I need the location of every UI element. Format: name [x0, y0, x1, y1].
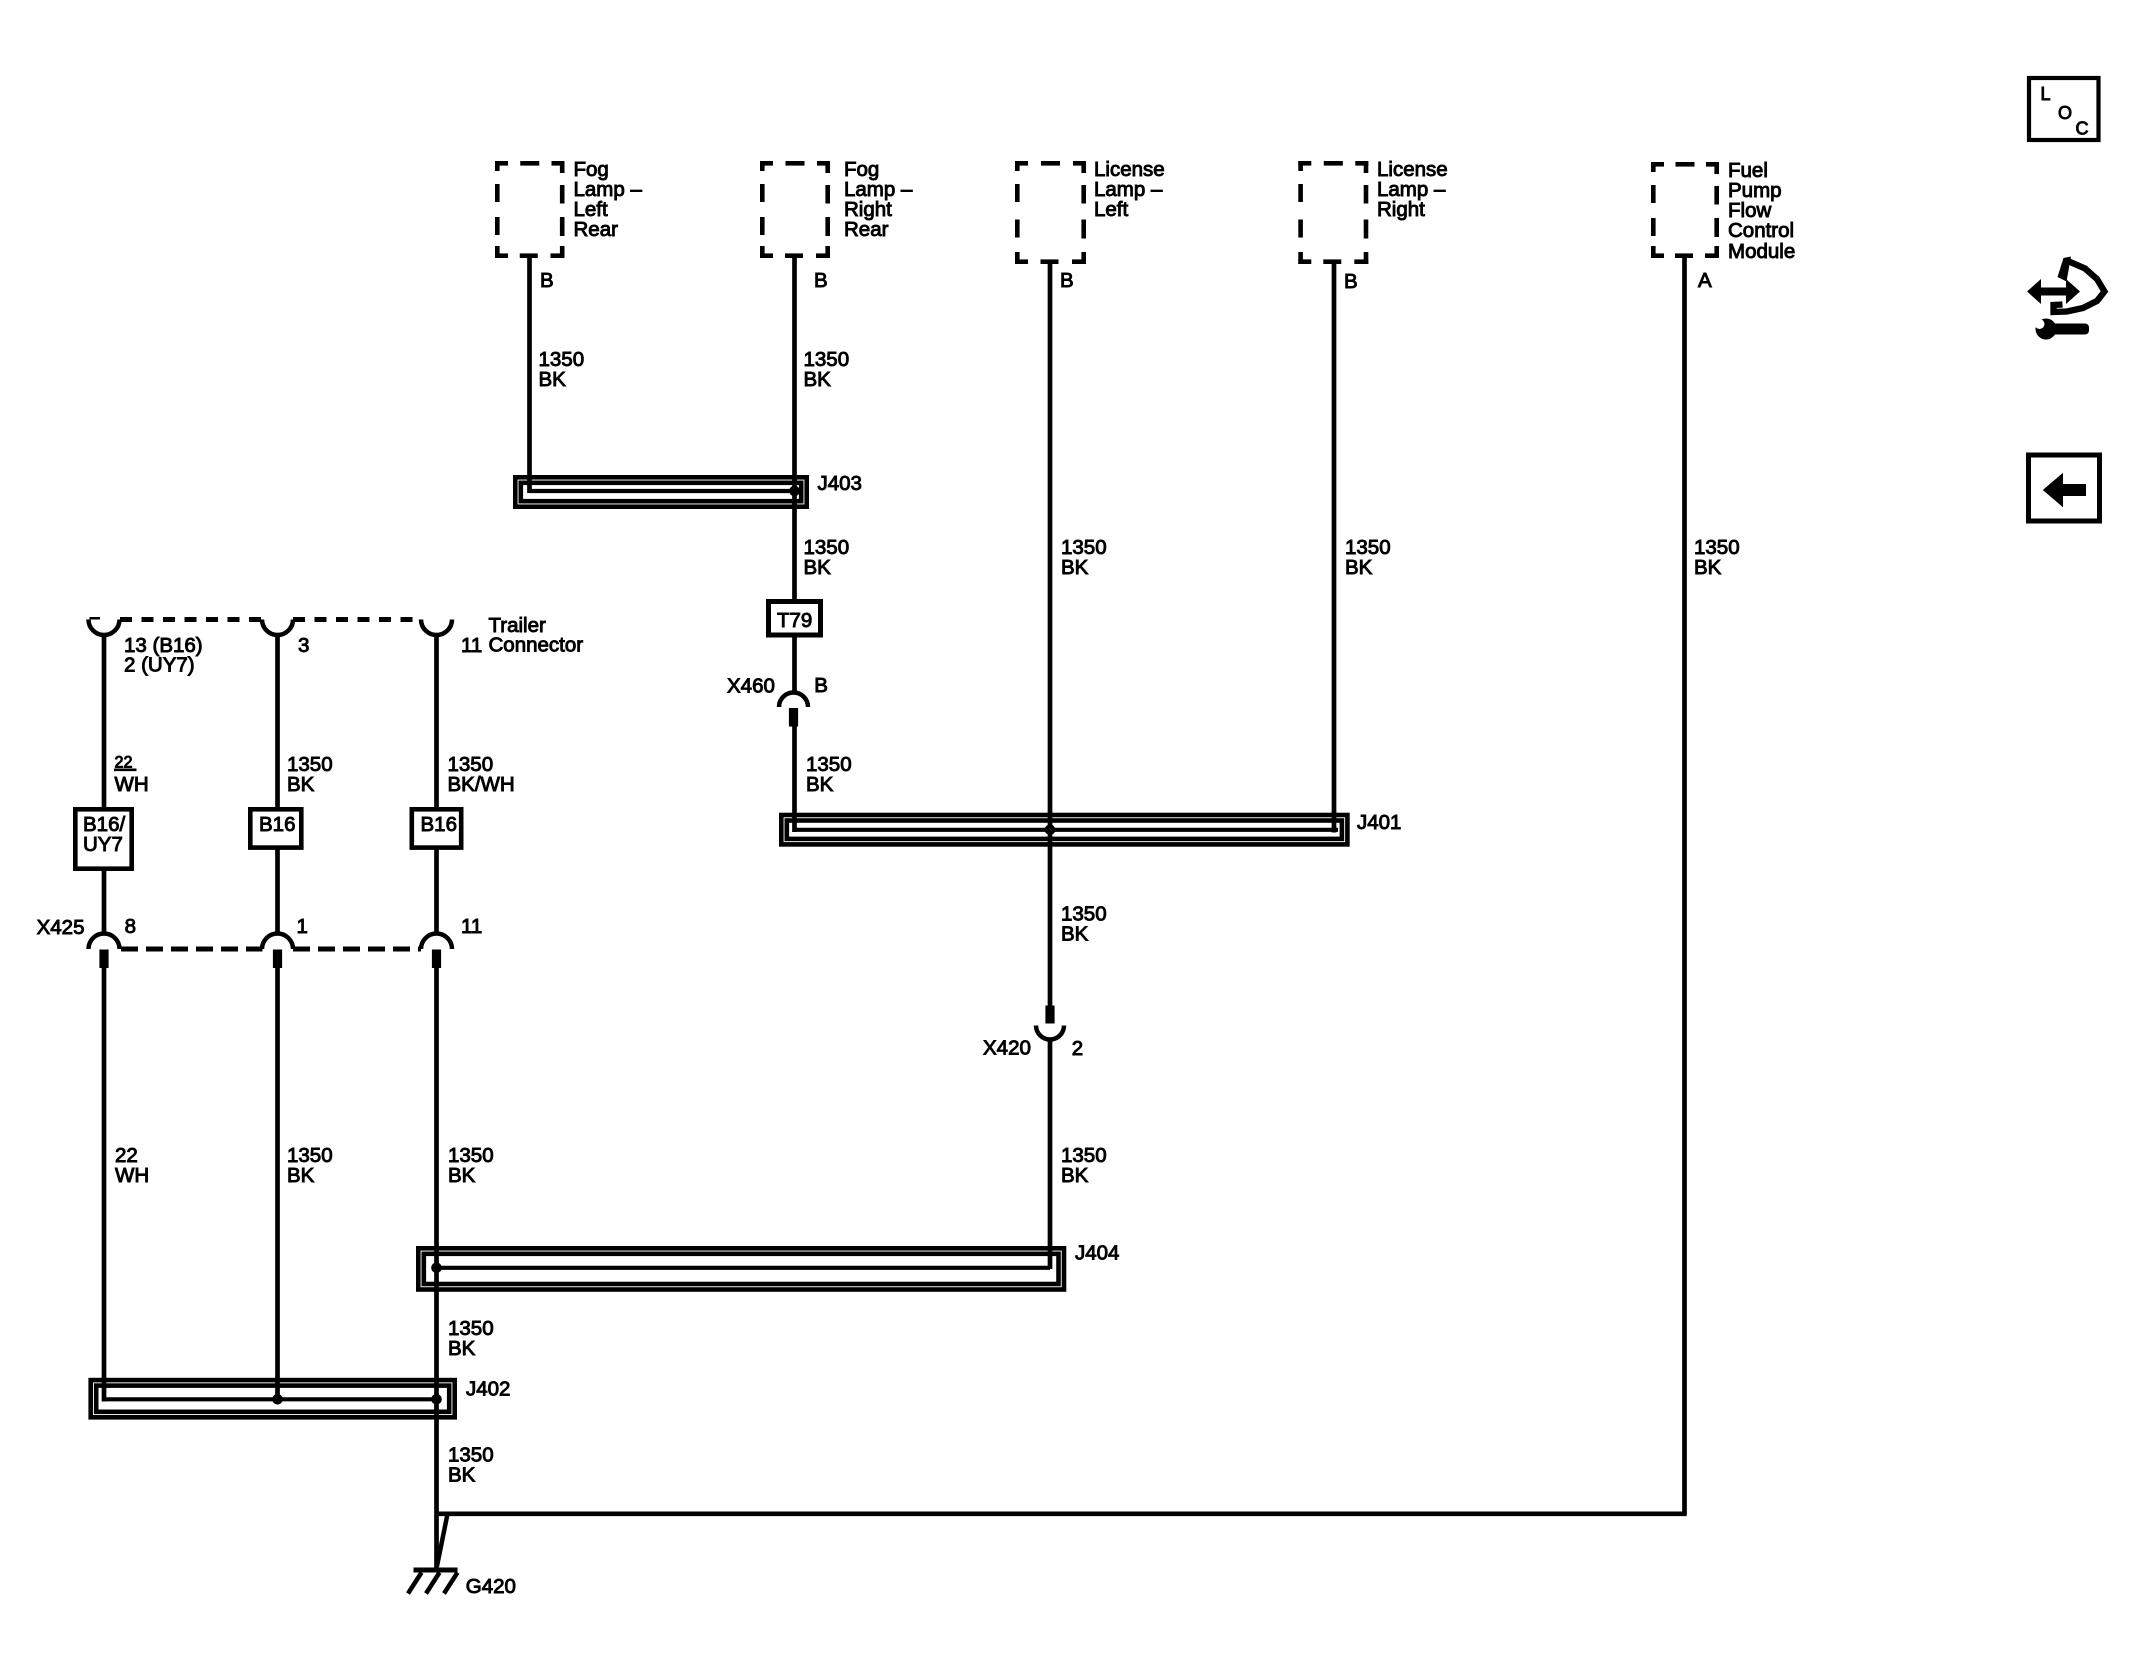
splice bus J401	[795, 828, 1339, 832]
splice pack J404 (body)	[418, 1248, 1064, 1289]
junction on J404	[431, 1263, 442, 1274]
connector box: Fog Lamp - Right Rear	[760, 161, 830, 258]
connector box: Fog Lamp - Left Rear	[495, 161, 565, 258]
svg-text:J401: J401	[1357, 811, 1401, 834]
svg-text:WH: WH	[115, 773, 149, 796]
svg-text:B16: B16	[259, 813, 295, 836]
pin label 2 (X420)	[1072, 1037, 1083, 1060]
wire label 1350 BK (below X460)	[806, 753, 852, 796]
wire label 1350 BK (below J401)	[1061, 902, 1107, 945]
svg-text:Connector: Connector	[489, 634, 584, 657]
svg-text:Module: Module	[1728, 240, 1795, 263]
wire: trailer pin 13 to X425 pin 8	[102, 635, 107, 935]
svg-text:BK: BK	[1694, 556, 1722, 579]
label X420	[983, 1037, 1031, 1060]
wire: T79 to X460	[792, 637, 797, 693]
connector box: License Lamp - Right	[1298, 161, 1368, 264]
wire label 1350 BK (license right)	[1345, 536, 1391, 579]
wire label 1350 BK (between J404 and J402)	[448, 1317, 494, 1360]
label: License Lamp - Right	[1377, 158, 1448, 221]
label: Fog Lamp - Left Rear	[574, 158, 643, 241]
label G420	[466, 1575, 516, 1598]
svg-text:11: 11	[461, 634, 482, 657]
pin label 3	[298, 634, 309, 657]
svg-text:BK: BK	[448, 1463, 476, 1486]
connector X425 cup pin 8	[89, 933, 120, 968]
svg-text:B: B	[814, 674, 828, 697]
wire: ground drop diagonal	[437, 1514, 448, 1566]
svg-text:B: B	[814, 269, 828, 292]
wire: trailer pin 11 to X425 pin 11	[434, 635, 439, 935]
svg-text:2 (UY7): 2 (UY7)	[124, 654, 195, 677]
wire: bottom horizontal run to ground	[439, 1511, 1687, 1516]
svg-text:Rear: Rear	[574, 218, 619, 241]
wire: fog lamp right rear through J403 to T79	[792, 254, 797, 599]
trailer connector cup pin 13/2	[89, 620, 120, 635]
icon: back arrow box	[2029, 455, 2100, 521]
svg-text:T79: T79	[777, 609, 812, 632]
label J402	[466, 1378, 510, 1401]
svg-text:J404: J404	[1075, 1242, 1119, 1265]
wire label 1350 BK (license left)	[1061, 536, 1107, 579]
svg-text:BK/WH: BK/WH	[448, 773, 515, 796]
svg-text:UY7: UY7	[83, 833, 123, 856]
wire label 1350 BK (fog right)	[804, 348, 850, 391]
wire label 1350 BK (X425 pin 11 lower)	[448, 1144, 494, 1187]
icon: LOC box	[2029, 78, 2099, 140]
wire label 1350 BK (fuel pump)	[1694, 536, 1740, 579]
pin label 11 (trailer)	[461, 634, 482, 657]
svg-text:BK: BK	[1061, 1164, 1089, 1187]
svg-text:B: B	[540, 269, 554, 292]
icon: service tools	[2027, 257, 2105, 340]
wire: X425 pin 11 through J404 and J402 to G420	[434, 968, 439, 1569]
svg-text:X420: X420	[983, 1037, 1031, 1060]
option box B16 (right)	[412, 809, 461, 847]
pin B (X460)	[814, 674, 828, 697]
wire label 1350 BK (X425 pin 1 lower)	[287, 1144, 333, 1187]
wire: fuel pump module down right side	[1682, 254, 1687, 1514]
svg-text:BK: BK	[804, 556, 832, 579]
pin label 2 (UY7)	[124, 654, 195, 677]
pin B (license lamp right)	[1344, 270, 1358, 293]
pin B (license lamp left)	[1060, 269, 1074, 292]
svg-text:BK: BK	[806, 773, 834, 796]
junction on J403	[789, 486, 800, 497]
wire: trailer pin 3 to X425 pin 1	[275, 635, 280, 935]
svg-text:Rear: Rear	[844, 218, 889, 241]
pin label 13 (B16)	[124, 634, 203, 657]
svg-text:X460: X460	[727, 675, 775, 698]
splice bus J403	[530, 489, 795, 493]
pin label 1	[297, 915, 308, 938]
splice pack J402 (body)	[91, 1380, 455, 1417]
svg-text:J403: J403	[818, 472, 862, 495]
svg-text:Left: Left	[1094, 198, 1128, 221]
svg-text:O: O	[2058, 103, 2072, 123]
connector X425 dashed line	[121, 947, 421, 952]
connector X420	[1036, 1006, 1064, 1040]
option box B16/UY7	[75, 809, 131, 868]
wire label 1350 BK (below J403)	[804, 536, 850, 579]
svg-text:WH: WH	[115, 1164, 149, 1187]
pin B (fog lamp left rear)	[540, 269, 554, 292]
connector box: Fuel Pump Flow Control Module	[1651, 162, 1719, 258]
connector X460	[779, 693, 808, 727]
junction on J401	[1045, 825, 1056, 836]
wire label 22 WH (upper)	[114, 754, 149, 797]
ground G420 symbol	[408, 1570, 458, 1594]
svg-text:C: C	[2076, 119, 2089, 139]
wire: X425 pin 8 to J402	[102, 968, 107, 1402]
wire label 1350 BK (fog left)	[539, 348, 585, 391]
label J404	[1075, 1242, 1119, 1265]
wire label 1350 BK/WH (trailer pin 11)	[448, 753, 515, 796]
connector X425 cup pin 11	[421, 933, 452, 968]
pin label 8	[125, 915, 136, 938]
trailer connector cup pin 11	[421, 620, 452, 635]
wire label 1350 BK (trailer pin 3)	[287, 753, 333, 796]
label J401	[1357, 811, 1401, 834]
svg-text:BK: BK	[1061, 922, 1089, 945]
wire: X425 pin 1 to J402	[275, 968, 280, 1402]
svg-text:Control: Control	[1728, 219, 1794, 242]
svg-text:1: 1	[297, 915, 308, 938]
splice bus J404	[437, 1266, 1051, 1270]
svg-text:J402: J402	[466, 1378, 510, 1401]
svg-text:BK: BK	[1061, 556, 1089, 579]
svg-text:L: L	[2041, 84, 2051, 104]
splice pack J401 (body)	[781, 815, 1347, 844]
option box B16 (center)	[250, 809, 301, 847]
trailer connector cup pin 3	[262, 620, 293, 635]
wire: license lamp right to J401	[1332, 260, 1337, 833]
splice pack J403 (body)	[515, 477, 806, 506]
svg-text:BK: BK	[448, 1337, 476, 1360]
svg-text:Right: Right	[1377, 198, 1425, 221]
svg-text:BK: BK	[448, 1164, 476, 1187]
pin B (fog lamp right rear)	[814, 269, 828, 292]
junction on J402 (right)	[431, 1394, 442, 1405]
wire: fog lamp left rear to J403	[527, 254, 532, 493]
svg-text:BK: BK	[804, 368, 832, 391]
wire label 1350 BK (below J402)	[448, 1444, 494, 1487]
pin label 11 (X425)	[461, 915, 482, 938]
svg-text:BK: BK	[287, 1164, 315, 1187]
svg-text:8: 8	[125, 915, 136, 938]
svg-text:B: B	[1344, 270, 1358, 293]
svg-text:3: 3	[298, 634, 309, 657]
wire label 1350 BK (below X420)	[1061, 1144, 1107, 1187]
label: Fuel Pump Flow Control Module	[1728, 159, 1795, 263]
svg-text:B16: B16	[421, 813, 457, 836]
pin A (fuel pump flow control module)	[1698, 269, 1712, 292]
trailer connector dashed line	[90, 617, 422, 622]
svg-text:A: A	[1698, 269, 1712, 292]
connector box: License Lamp - Left	[1015, 161, 1086, 264]
wire: X420 to J404	[1048, 1039, 1053, 1269]
svg-text:X425: X425	[37, 916, 85, 939]
svg-text:G420: G420	[466, 1575, 516, 1598]
pass-through grommet T79	[769, 602, 821, 636]
junction on J402 (center)	[272, 1394, 283, 1405]
wire: license lamp left through J401 to X420	[1048, 260, 1053, 1006]
svg-text:BK: BK	[1345, 556, 1373, 579]
svg-text:B: B	[1060, 269, 1074, 292]
label: License Lamp - Left	[1094, 158, 1165, 221]
label Trailer Connector	[489, 614, 584, 657]
svg-text:11: 11	[461, 915, 482, 938]
svg-text:2: 2	[1072, 1037, 1083, 1060]
svg-text:BK: BK	[539, 368, 567, 391]
label J403	[818, 472, 862, 495]
label X425	[37, 916, 85, 939]
label X460	[727, 675, 775, 698]
svg-text:BK: BK	[287, 773, 315, 796]
label: Fog Lamp - Right Rear	[844, 158, 913, 241]
wire: X460 to J401	[792, 726, 797, 833]
splice bus J402	[104, 1397, 437, 1401]
wire label 22 WH (lower)	[115, 1144, 149, 1187]
connector X425 cup pin 1	[262, 933, 293, 968]
